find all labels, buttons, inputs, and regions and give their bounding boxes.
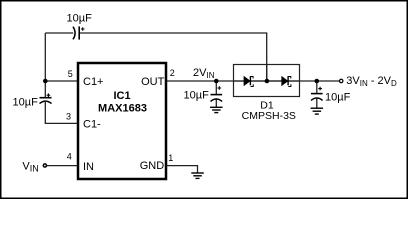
svg-text:10µF: 10µF [13,97,39,109]
svg-text:3VIN - 2VD: 3VIN - 2VD [346,75,397,88]
svg-text:10µF: 10µF [67,13,93,25]
svg-text:5: 5 [68,69,73,79]
svg-text:C1+: C1+ [83,76,104,88]
svg-text:3: 3 [66,112,71,122]
svg-text:GND: GND [140,160,165,172]
svg-text:10µF: 10µF [325,92,351,104]
svg-text:2: 2 [170,68,175,78]
svg-text:1: 1 [168,153,173,163]
svg-text:C1-: C1- [83,118,101,130]
svg-text:CMPSH-3S: CMPSH-3S [242,110,296,122]
svg-text:IN: IN [83,161,94,173]
svg-text:OUT: OUT [141,76,165,88]
svg-text:IC1: IC1 [113,90,130,102]
svg-text:10µF: 10µF [184,90,210,102]
svg-text:4: 4 [67,152,72,162]
svg-text:MAX1683: MAX1683 [98,103,147,115]
